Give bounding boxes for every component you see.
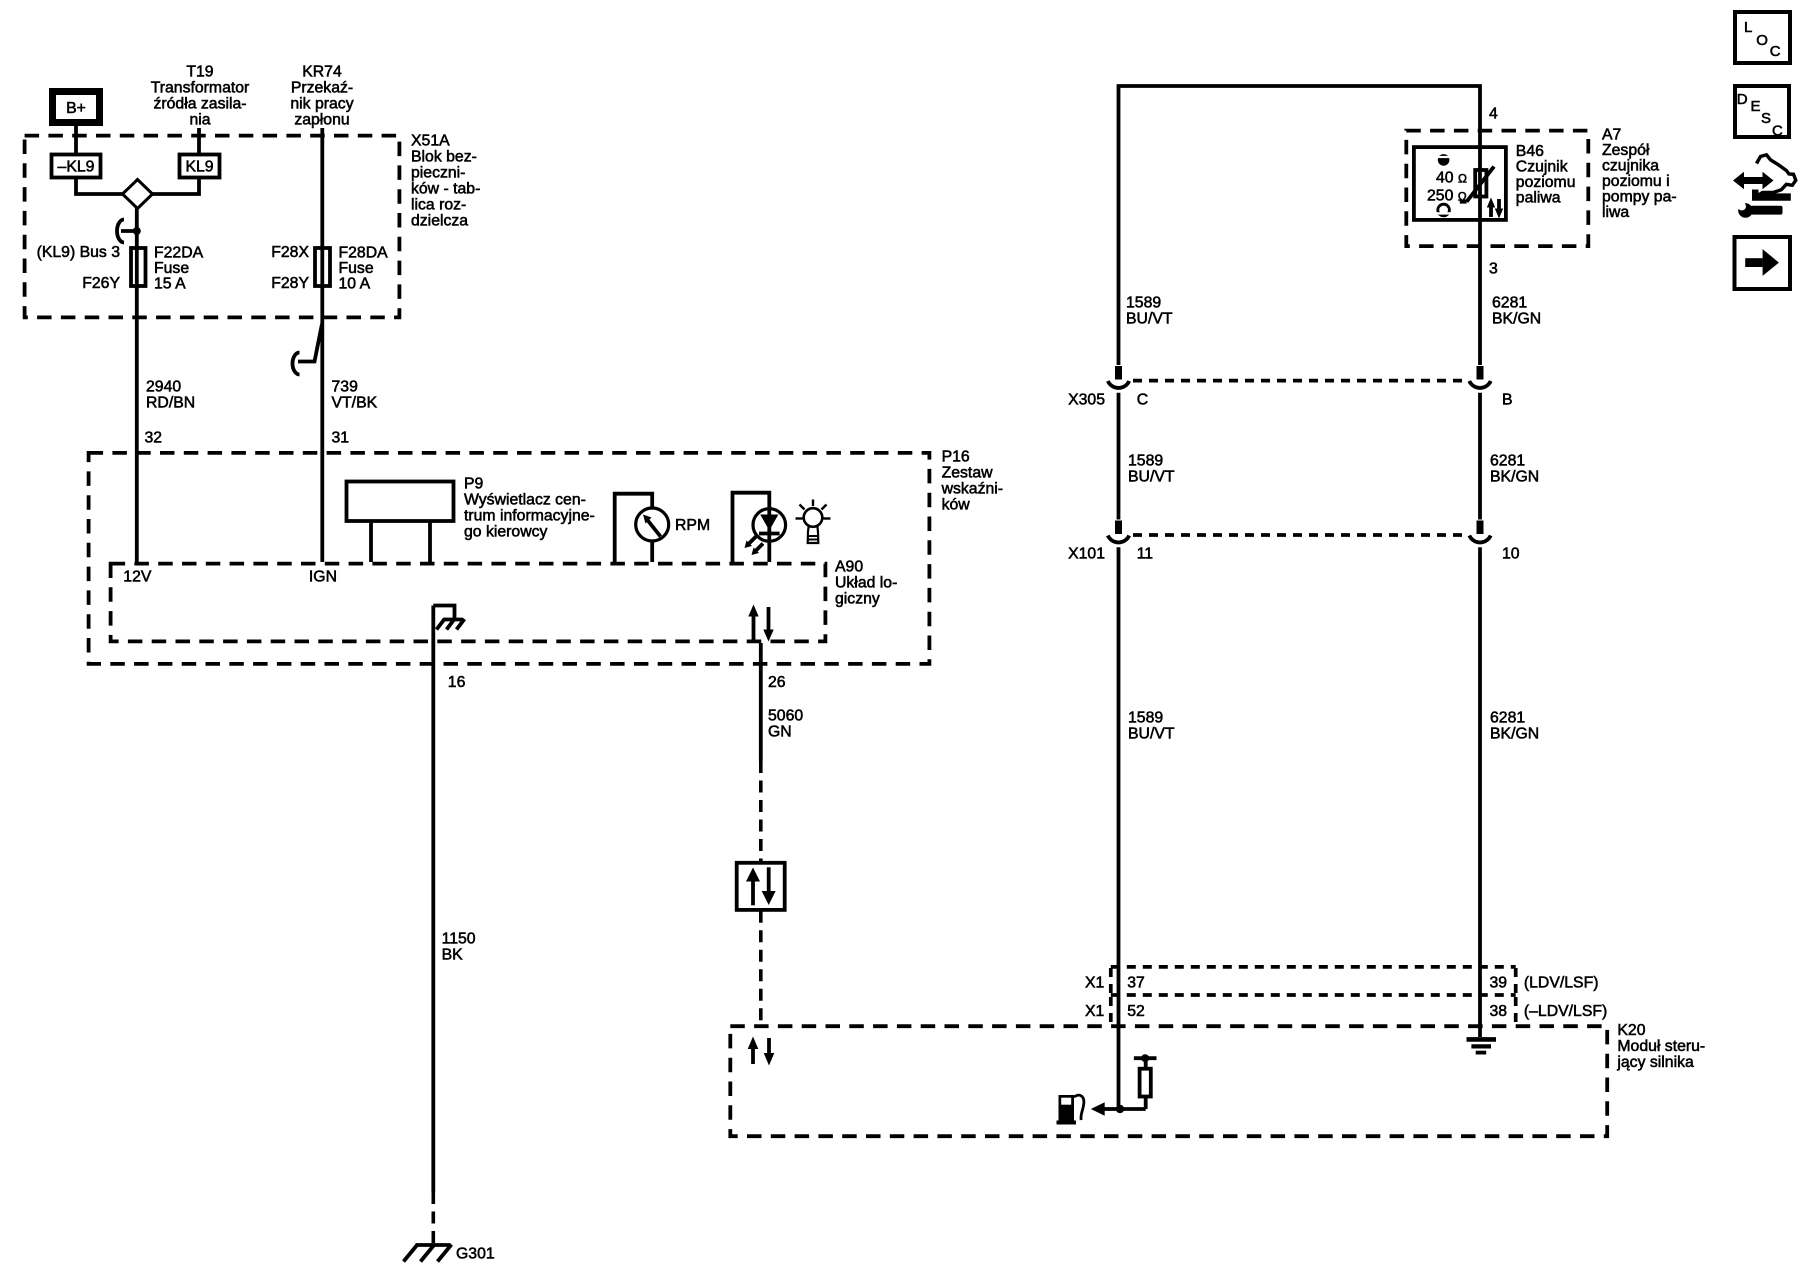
lamp bulb icon <box>796 500 831 544</box>
svg-text:K20: K20 <box>1617 1022 1645 1039</box>
gauge RPM circle <box>636 508 669 541</box>
fuel level sensor B46 box <box>1414 147 1506 220</box>
svg-text:BU/VT: BU/VT <box>1128 725 1175 742</box>
svg-text:BU/VT: BU/VT <box>1128 468 1175 485</box>
svg-text:KR74: KR74 <box>302 64 342 81</box>
svg-text:B+: B+ <box>66 100 86 117</box>
svg-text:B46: B46 <box>1516 143 1544 160</box>
svg-text:D: D <box>1737 91 1748 108</box>
LED diode symbol <box>759 509 780 562</box>
svg-text:31: 31 <box>332 429 350 446</box>
svg-text:go kierowcy: go kierowcy <box>464 524 548 541</box>
wire 739 vertical (KR74 to A90) <box>320 128 324 562</box>
A90 bus arrows <box>748 605 773 642</box>
svg-text:BK: BK <box>442 947 464 964</box>
fuse block X51A dashed box <box>25 136 400 318</box>
label P16 Zestaw wskaznikow <box>941 449 1003 514</box>
splice hook symbol <box>117 220 137 243</box>
svg-text:zapłonu: zapłonu <box>294 112 349 129</box>
svg-text:Przekaź-: Przekaź- <box>291 80 353 97</box>
svg-text:pompy pa-: pompy pa- <box>1602 188 1677 205</box>
svg-text:KL9: KL9 <box>185 159 213 176</box>
wire 6281 mid <box>1478 393 1482 520</box>
diamond junction <box>123 180 153 209</box>
svg-text:lica roz-: lica roz- <box>411 196 466 213</box>
svg-text:P16: P16 <box>942 449 970 466</box>
logic module A90 dashed box <box>111 564 826 642</box>
wire 2940 vertical (diamond to A90) <box>135 209 139 563</box>
connector X1 row 37-39 dotted box <box>1111 967 1516 995</box>
svg-text:6281: 6281 <box>1492 294 1527 311</box>
label X51A <box>411 132 480 229</box>
label wire 6281 BK/GN lower <box>1490 709 1539 742</box>
svg-text:(–LDV/LSF): (–LDV/LSF) <box>1524 1003 1607 1020</box>
svg-text:F28Y: F28Y <box>271 275 309 292</box>
label wire 1589 BU/VT mid <box>1128 452 1175 485</box>
gauge needle <box>643 515 661 537</box>
svg-text:X305: X305 <box>1068 391 1105 408</box>
svg-text:4: 4 <box>1489 105 1498 122</box>
svg-text:1150: 1150 <box>442 931 476 948</box>
svg-text:E: E <box>1751 98 1761 115</box>
wire top horizontal link <box>1119 86 1481 365</box>
svg-text:giczny: giczny <box>835 590 880 607</box>
wire 1589 lower <box>1117 547 1121 1109</box>
wire P9 left leg <box>369 523 373 563</box>
svg-text:poziomu i: poziomu i <box>1602 173 1670 190</box>
K20 internal resistor <box>1120 1054 1157 1109</box>
svg-text:–KL9: –KL9 <box>58 159 95 176</box>
svg-text:czujnika: czujnika <box>1602 157 1659 174</box>
svg-text:BU/VT: BU/VT <box>1126 310 1173 327</box>
variable resistor symbol <box>1460 167 1494 202</box>
svg-text:32: 32 <box>145 429 163 446</box>
svg-text:3: 3 <box>1489 260 1498 277</box>
nav icon arrow box <box>1735 237 1791 289</box>
svg-text:nia: nia <box>189 112 210 129</box>
wire 26 solid segment <box>759 643 763 761</box>
wire ground hook in A90 <box>433 606 454 620</box>
svg-text:Wyświetlacz cen-: Wyświetlacz cen- <box>464 492 586 509</box>
svg-text:F22DA: F22DA <box>154 244 204 261</box>
svg-text:F26Y: F26Y <box>82 275 120 292</box>
svg-text:Fuse: Fuse <box>339 260 374 277</box>
svg-text:40 Ω: 40 Ω <box>1436 169 1467 186</box>
svg-text:1589: 1589 <box>1128 709 1163 726</box>
sensor range arrows <box>1487 198 1503 219</box>
label wire 2940 RD/BN <box>146 378 195 411</box>
svg-text:52: 52 <box>1127 1003 1145 1020</box>
terminal KL9 <box>180 155 220 178</box>
svg-text:BK/GN: BK/GN <box>1490 468 1539 485</box>
svg-text:37: 37 <box>1127 974 1145 991</box>
wire RPM gauge bracket <box>615 494 653 562</box>
svg-text:T19: T19 <box>186 64 213 81</box>
nav icon LOC box <box>1735 12 1790 63</box>
nav icon wrench <box>1738 202 1783 218</box>
label wire 6281 BK/GN mid <box>1490 452 1539 485</box>
svg-text:liwa: liwa <box>1602 204 1629 221</box>
svg-text:jący silnika: jący silnika <box>1616 1054 1694 1071</box>
svg-text:wskaźni-: wskaźni- <box>941 481 1003 498</box>
wire 1589 mid <box>1117 393 1121 520</box>
svg-text:(KL9) Bus 3: (KL9) Bus 3 <box>37 244 121 261</box>
LED emission arrows <box>745 537 764 556</box>
svg-text:11: 11 <box>1137 546 1154 563</box>
label A7 Zespol czujnika <box>1602 126 1677 221</box>
svg-text:źródła zasila-: źródła zasila- <box>153 96 246 113</box>
display P9 box <box>347 482 454 522</box>
svg-text:B: B <box>1502 391 1513 408</box>
wire T19 to KL9 <box>197 128 201 153</box>
connector X1 row 52-38 dotted ticks <box>1111 997 1516 1023</box>
chassis ground symbol in A90 <box>437 619 465 630</box>
svg-text:Blok bez-: Blok bez- <box>411 148 477 165</box>
svg-text:Układ lo-: Układ lo- <box>835 574 897 591</box>
wire LED bracket <box>733 493 770 562</box>
fuel pump icon <box>1057 1095 1084 1125</box>
label K20 Modul sterujacy <box>1616 1022 1705 1071</box>
wire 1150 vertical <box>431 606 435 1193</box>
svg-text:6281: 6281 <box>1490 452 1525 469</box>
svg-text:RPM: RPM <box>675 517 710 534</box>
svg-text:BK/GN: BK/GN <box>1492 310 1541 327</box>
svg-text:(LDV/LSF): (LDV/LSF) <box>1524 974 1599 991</box>
wire gauge bottom <box>650 541 654 562</box>
wire through sensor B46 <box>1478 129 1482 365</box>
svg-text:ków: ków <box>942 497 971 514</box>
instrument cluster P16 dashed box <box>89 453 930 664</box>
label wire 6281 BK/GN upper <box>1492 294 1541 327</box>
svg-text:RD/BN: RD/BN <box>146 394 195 411</box>
svg-text:trum informacyjne-: trum informacyjne- <box>464 508 595 525</box>
wire B+ to -KL9 <box>74 126 78 153</box>
LED indicator circle <box>753 509 786 542</box>
svg-text:VT/BK: VT/BK <box>332 394 378 411</box>
svg-text:L: L <box>1744 19 1752 36</box>
svg-text:pieczni-: pieczni- <box>411 164 465 181</box>
svg-text:dzielcza: dzielcza <box>411 212 468 229</box>
svg-text:A90: A90 <box>835 558 863 575</box>
svg-text:12V: 12V <box>123 568 152 585</box>
label B46 Czujnik poziomu paliwa <box>1516 143 1576 207</box>
svg-text:1589: 1589 <box>1126 294 1161 311</box>
label wire 5060 GN <box>768 707 803 740</box>
lead hook symbol on wire 739 <box>293 324 322 375</box>
svg-text:C: C <box>1770 43 1781 60</box>
wire 5060 dashed segment lower <box>759 911 763 1025</box>
terminal -KL9 <box>52 155 101 178</box>
svg-text:Fuse: Fuse <box>154 260 189 277</box>
splice junction dot <box>133 227 141 235</box>
svg-text:Czujnik: Czujnik <box>1516 159 1568 176</box>
svg-text:26: 26 <box>768 674 786 691</box>
svg-text:S: S <box>1761 110 1771 127</box>
svg-text:G301: G301 <box>456 1246 495 1263</box>
svg-text:Zestaw: Zestaw <box>942 465 994 482</box>
svg-text:Moduł steru-: Moduł steru- <box>1617 1038 1705 1055</box>
svg-text:nik pracy: nik pracy <box>290 96 353 113</box>
sensor empty mark icon <box>1437 204 1451 216</box>
svg-text:16: 16 <box>448 674 466 691</box>
svg-text:X101: X101 <box>1068 546 1105 563</box>
label wire 1589 BU/VT lower <box>1128 709 1175 742</box>
wire 5060 dashed segment upper <box>759 761 763 861</box>
svg-text:P9: P9 <box>464 476 484 493</box>
svg-text:X1: X1 <box>1085 1003 1105 1020</box>
engine control module K20 dashed box <box>730 1026 1607 1136</box>
connector X101 dotted line <box>1133 533 1468 537</box>
svg-text:paliwa: paliwa <box>1516 190 1561 207</box>
serial data box with arrows <box>737 863 785 910</box>
svg-text:poziomu: poziomu <box>1516 174 1576 191</box>
svg-text:F28DA: F28DA <box>339 244 389 261</box>
svg-text:1589: 1589 <box>1128 452 1163 469</box>
label fuse F28DA 10A <box>339 244 389 292</box>
junction dot in K20 <box>1116 1105 1124 1113</box>
svg-text:10: 10 <box>1502 546 1520 563</box>
nav icon car with double arrow <box>1733 155 1796 201</box>
fuse F28DA <box>315 248 330 286</box>
connector X305 pin C <box>1108 366 1129 388</box>
svg-text:739: 739 <box>332 378 359 395</box>
svg-text:2940: 2940 <box>146 378 181 395</box>
sensor full mark icon <box>1437 154 1451 166</box>
label wire 1150 BK <box>442 931 476 964</box>
connector X101 pin 10 <box>1469 521 1490 543</box>
svg-text:GN: GN <box>768 723 792 740</box>
label P9 Wyswietlacz <box>464 476 595 541</box>
nav icon DESC box <box>1735 86 1789 140</box>
wire KL9 to diamond <box>153 178 200 195</box>
label KR74 relay <box>290 64 353 129</box>
svg-text:ków - tab-: ków - tab- <box>411 180 480 197</box>
fuel sender assembly A7 dashed box <box>1406 131 1588 247</box>
wire P9 right leg <box>428 523 432 563</box>
label A90 Uklad logiczny <box>835 558 897 607</box>
svg-text:X1: X1 <box>1085 974 1105 991</box>
svg-text:C: C <box>1137 391 1148 408</box>
svg-text:38: 38 <box>1490 1003 1508 1020</box>
connector X305 dotted line <box>1133 379 1468 383</box>
label T19 Transformator <box>151 64 250 129</box>
ground G301 symbol <box>404 1245 452 1262</box>
wire 1150 dashed bottom segment <box>431 1192 435 1244</box>
svg-text:A7: A7 <box>1602 126 1621 143</box>
connector X101 pin 11 <box>1108 521 1129 543</box>
wire -KL9 to diamond <box>76 178 123 195</box>
svg-text:F28X: F28X <box>271 244 309 261</box>
svg-text:6281: 6281 <box>1490 709 1525 726</box>
label wire 739 VT/BK <box>332 378 378 411</box>
svg-text:5060: 5060 <box>768 707 803 724</box>
svg-text:X51A: X51A <box>411 132 450 149</box>
arrow to fuel pump <box>1091 1102 1120 1115</box>
wire 6281 lower <box>1478 547 1482 1037</box>
svg-text:15 A: 15 A <box>154 275 186 292</box>
svg-text:C: C <box>1772 123 1783 140</box>
svg-text:Transformator: Transformator <box>151 80 250 97</box>
svg-text:39: 39 <box>1490 974 1508 991</box>
label fuse F22DA 15A <box>154 244 204 292</box>
svg-text:O: O <box>1756 32 1768 49</box>
svg-text:10 A: 10 A <box>339 275 371 292</box>
svg-text:BK/GN: BK/GN <box>1490 725 1539 742</box>
battery terminal B+ <box>53 92 100 123</box>
svg-text:IGN: IGN <box>309 568 337 585</box>
connector X305 pin B <box>1469 366 1490 388</box>
ground symbol in K20 <box>1467 1039 1497 1052</box>
K20 bus arrows <box>748 1037 775 1066</box>
svg-text:Zespół: Zespół <box>1602 142 1650 159</box>
label wire 1589 BU/VT upper <box>1126 294 1173 327</box>
fuse F22DA <box>131 248 146 286</box>
